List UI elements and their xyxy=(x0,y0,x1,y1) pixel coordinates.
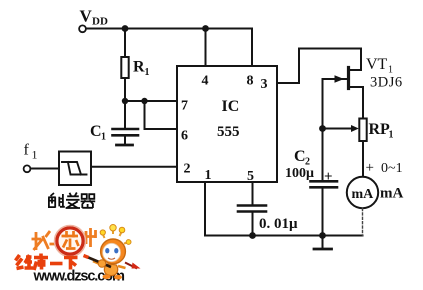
junction node R1-C1-pin7 xyxy=(122,98,128,104)
watermark logo xyxy=(16,225,141,285)
svg-text:C: C xyxy=(90,123,102,140)
svg-text:6: 6 xyxy=(181,129,188,144)
potentiometer RP1 wiper arrow xyxy=(323,128,356,130)
label trigger 触发器 (hand drawn strokes) xyxy=(48,193,95,209)
watermark mascot xyxy=(84,225,141,280)
svg-text:V: V xyxy=(80,7,93,26)
svg-text:1: 1 xyxy=(389,130,394,141)
capacitor C2 xyxy=(311,181,338,187)
wire bottom rail xyxy=(205,235,363,237)
svg-text:VT: VT xyxy=(366,56,388,73)
svg-text:1: 1 xyxy=(145,67,150,78)
svg-text:R: R xyxy=(133,59,145,76)
wire C1 to ground xyxy=(124,136,126,144)
junction rail-R1 xyxy=(122,25,129,32)
wire rail to R1 xyxy=(124,29,126,58)
junction gate-wiper-C2 node xyxy=(319,125,326,132)
svg-text:8: 8 xyxy=(247,74,254,89)
wire pin3 to VT1 drain xyxy=(277,49,361,84)
potentiometer RP1 body xyxy=(359,119,366,142)
wire 0.01u to rail xyxy=(252,213,254,236)
watermark text 维库一下 xyxy=(16,254,78,271)
svg-text:DD: DD xyxy=(92,16,108,28)
wire VDD top rail xyxy=(86,28,252,30)
transistor VT1 source lead xyxy=(350,87,363,119)
svg-text:4: 4 xyxy=(202,74,209,89)
transistor VT1 gate lead with arrow xyxy=(323,78,347,80)
wire RP1 to meter xyxy=(362,141,364,177)
wire gate down to node xyxy=(322,79,324,180)
svg-text:1: 1 xyxy=(32,148,38,162)
wire pin5 to capacitor xyxy=(252,182,254,205)
watermark char inside magnifier xyxy=(62,231,79,249)
svg-text:0~1: 0~1 xyxy=(381,161,403,176)
wire f1 to trigger xyxy=(31,168,60,170)
svg-text:+: + xyxy=(366,160,374,176)
wire node to pin7 xyxy=(125,100,177,102)
wire pin1 to bottom rail xyxy=(204,182,206,236)
svg-text:f: f xyxy=(24,142,30,159)
trigger box xyxy=(59,152,91,186)
wire pin4 to rail xyxy=(205,29,207,67)
svg-text:3DJ6: 3DJ6 xyxy=(370,75,403,91)
wire trigger to pin2 xyxy=(91,166,177,168)
wire node to pin6 xyxy=(145,101,178,129)
svg-text:mA: mA xyxy=(352,187,375,202)
wire C2 to rail xyxy=(322,188,324,236)
svg-text:1: 1 xyxy=(101,132,106,143)
svg-text:+: + xyxy=(324,169,333,185)
junction rail-C2-ground xyxy=(319,232,326,239)
terminal VDD xyxy=(79,25,86,32)
transistor VT1 drain lead xyxy=(350,69,361,71)
wire meter to rail dashed xyxy=(362,209,364,236)
svg-text:100μ: 100μ xyxy=(285,166,314,181)
svg-text:C: C xyxy=(294,148,306,165)
ground under C1 xyxy=(117,144,133,147)
svg-text:555: 555 xyxy=(217,124,240,140)
meter mA xyxy=(347,177,378,208)
capacitor 0.01u xyxy=(238,206,266,212)
resistor R1 xyxy=(121,57,128,78)
svg-text:3: 3 xyxy=(261,77,268,92)
svg-text:5: 5 xyxy=(247,169,254,184)
wire pin8 to rail xyxy=(251,29,253,67)
trigger hysteresis symbol xyxy=(62,162,87,175)
junction rail-0.01u xyxy=(249,232,256,239)
junction rail-pin4 xyxy=(202,25,209,32)
wire node to C1 xyxy=(124,101,126,128)
junction node pin6 branch xyxy=(141,98,147,104)
terminal f1 xyxy=(24,165,31,172)
svg-text:mA: mA xyxy=(380,186,403,202)
svg-text:7: 7 xyxy=(181,99,188,114)
transistor VT1 channel bar xyxy=(347,68,350,89)
svg-text:0. 01μ: 0. 01μ xyxy=(259,216,298,232)
svg-text:IC: IC xyxy=(222,98,240,115)
wire R1 to node xyxy=(124,78,126,101)
ground under rail xyxy=(322,236,324,249)
watermark magnifier ring xyxy=(57,228,83,254)
svg-text:RP: RP xyxy=(369,121,391,138)
op-amp U1 IC555 body xyxy=(177,66,277,182)
capacitor C1 xyxy=(113,129,139,135)
svg-text:2: 2 xyxy=(184,162,191,177)
watermark text 找芯片 xyxy=(32,228,96,250)
svg-text:1: 1 xyxy=(205,168,212,183)
